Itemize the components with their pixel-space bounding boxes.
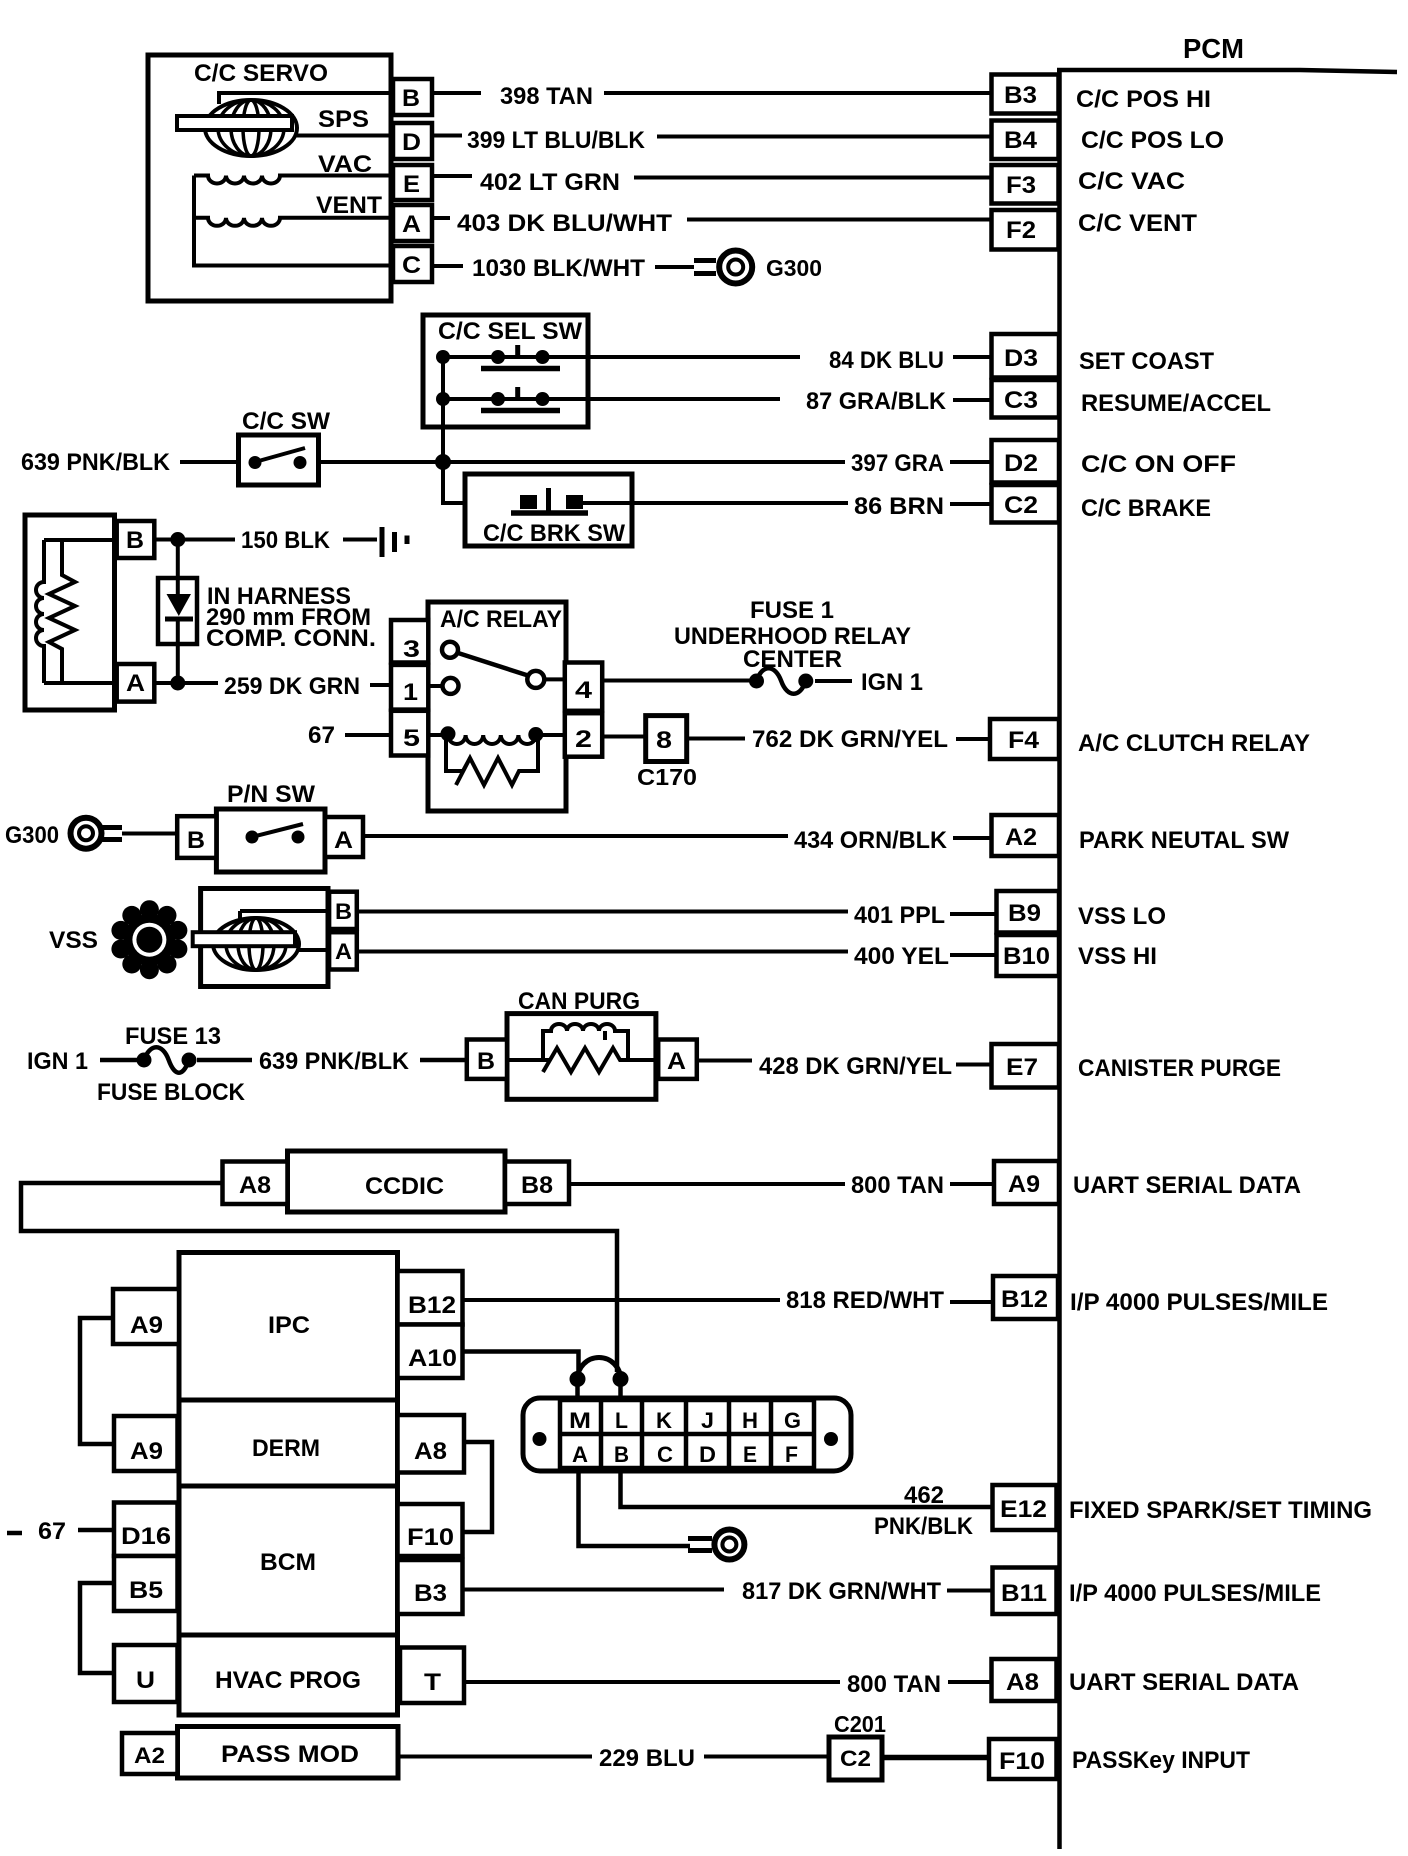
HVAC pin T xyxy=(400,1648,464,1704)
svg-text:762 DK GRN/YEL: 762 DK GRN/YEL xyxy=(752,726,948,753)
svg-text:A9: A9 xyxy=(130,1438,163,1465)
svg-text:B4: B4 xyxy=(1004,127,1038,154)
wire dash into E7 xyxy=(956,1063,991,1067)
svg-text:C/C BRAKE: C/C BRAKE xyxy=(1081,495,1211,522)
wire DLC pin B to E12 xyxy=(621,1468,993,1507)
BCM pin B3 xyxy=(398,1560,463,1614)
svg-text:UART SERIAL DATA: UART SERIAL DATA xyxy=(1073,1172,1301,1199)
svg-text:D: D xyxy=(699,1442,716,1467)
svg-text:FUSE 13: FUSE 13 xyxy=(125,1023,221,1050)
svg-text:I/P 4000 PULSES/MILE: I/P 4000 PULSES/MILE xyxy=(1069,1580,1321,1607)
CAN PURG box xyxy=(507,988,656,1099)
connector A8 xyxy=(992,1659,1057,1701)
PASS MOD box xyxy=(178,1727,399,1779)
svg-text:H: H xyxy=(742,1408,758,1433)
svg-text:A10: A10 xyxy=(408,1345,457,1372)
svg-text:C/C BRK SW: C/C BRK SW xyxy=(483,520,625,547)
connector B12 xyxy=(993,1276,1058,1319)
connector C201 pin C2 xyxy=(829,1737,882,1780)
svg-text:CENTER: CENTER xyxy=(743,646,842,673)
wire dash into C2 xyxy=(950,502,991,506)
svg-text:A: A xyxy=(334,827,353,854)
wire to C201 xyxy=(704,1755,829,1759)
wire dash to ground xyxy=(343,538,377,542)
connector B9 xyxy=(997,891,1060,933)
svg-text:C170: C170 xyxy=(637,764,697,790)
svg-text:E: E xyxy=(403,171,420,198)
clutch coil and resistor xyxy=(36,540,113,683)
junction dot xyxy=(435,454,451,470)
svg-text:U: U xyxy=(136,1667,155,1694)
connector C170 pin 8 xyxy=(646,716,687,762)
svg-text:P/N SW: P/N SW xyxy=(227,781,315,808)
wire 229 BLU xyxy=(398,1755,592,1759)
DLC connector body xyxy=(523,1398,851,1471)
svg-text:G: G xyxy=(784,1408,801,1433)
connector E12 xyxy=(993,1485,1057,1530)
HVAC PROG module box xyxy=(179,1635,398,1715)
VSS pin B xyxy=(329,892,357,929)
wire dash into B12 xyxy=(950,1300,993,1304)
svg-text:B5: B5 xyxy=(129,1577,163,1604)
BCM pin F10 xyxy=(398,1504,463,1556)
wire 818 RED/WHT IPC B12 to PCM B12 xyxy=(463,1298,781,1302)
P/N SW box xyxy=(216,781,325,872)
svg-text:B12: B12 xyxy=(408,1292,456,1319)
wire 1030 BLK/WHT to G300 xyxy=(432,266,694,267)
CCDIC pin B8 xyxy=(505,1162,569,1205)
wire relay pin 2 to C170 xyxy=(602,735,646,739)
svg-text:A9: A9 xyxy=(1008,1171,1040,1198)
wire 428 DK GRN/YEL to E7 xyxy=(697,1059,752,1063)
svg-text:A2: A2 xyxy=(134,1743,165,1768)
svg-text:L: L xyxy=(615,1408,628,1433)
svg-text:G300: G300 xyxy=(766,255,822,281)
wire 400 YEL to B10 xyxy=(357,950,848,954)
svg-text:397 GRA: 397 GRA xyxy=(851,450,944,477)
wire dash into B9 xyxy=(950,912,996,916)
DERM module box xyxy=(179,1400,398,1486)
wire C/C SW to junction and on to D2 xyxy=(319,460,846,464)
svg-text:C/C SW: C/C SW xyxy=(242,408,330,435)
C/C SW box xyxy=(239,408,331,485)
svg-text:639 PNK/BLK: 639 PNK/BLK xyxy=(259,1048,410,1075)
P/N SW pin A xyxy=(325,817,363,857)
svg-text:PASS MOD: PASS MOD xyxy=(221,1741,359,1768)
svg-text:B: B xyxy=(126,527,144,554)
connector C2 xyxy=(992,485,1060,523)
svg-text:A: A xyxy=(126,670,145,697)
svg-text:5: 5 xyxy=(403,725,420,752)
svg-text:B: B xyxy=(614,1442,629,1467)
svg-text:F10: F10 xyxy=(407,1524,454,1551)
svg-text:DERM: DERM xyxy=(252,1435,320,1462)
svg-text:B9: B9 xyxy=(1008,900,1041,927)
clutch pin B xyxy=(117,521,155,558)
wire DERM A8 to BCM F10 xyxy=(463,1442,493,1532)
wire resume/accel row to C3 xyxy=(443,397,780,401)
DERM pin A8 xyxy=(398,1415,465,1473)
svg-text:398 TAN: 398 TAN xyxy=(500,83,593,110)
svg-text:A: A xyxy=(402,211,421,238)
junction dot A xyxy=(170,676,185,691)
diode D (in harness) xyxy=(158,578,197,644)
svg-text:259 DK GRN: 259 DK GRN xyxy=(224,673,360,700)
svg-text:E: E xyxy=(743,1442,757,1467)
relay pin 1 xyxy=(391,665,428,710)
wire 259 DK GRN xyxy=(154,681,218,685)
CAN PURG pin A xyxy=(658,1040,697,1079)
wire 762 DK GRN/YEL to F4 xyxy=(687,737,745,741)
connector A9 xyxy=(994,1161,1059,1204)
svg-text:400 YEL: 400 YEL xyxy=(854,943,949,970)
svg-text:D: D xyxy=(402,129,421,156)
svg-text:B10: B10 xyxy=(1003,943,1050,970)
C/C SW contacts xyxy=(249,448,307,469)
svg-text:150 BLK: 150 BLK xyxy=(241,527,331,554)
svg-text:C/C VAC: C/C VAC xyxy=(1078,168,1185,195)
wire dash into A9 xyxy=(950,1182,994,1186)
A/C RELAY box xyxy=(428,602,566,811)
connector D2 xyxy=(992,440,1060,483)
wire 398 TAN to B3 xyxy=(432,91,991,95)
C/C SERVO box xyxy=(148,55,391,301)
set/coast switch contacts xyxy=(436,345,560,369)
svg-text:86 BRN: 86 BRN xyxy=(854,493,944,520)
svg-text:B8: B8 xyxy=(521,1172,553,1199)
wire relay pin 4 to fuse 1 xyxy=(602,679,757,683)
svg-text:639 PNK/BLK: 639 PNK/BLK xyxy=(21,449,171,476)
svg-text:C2: C2 xyxy=(840,1746,871,1771)
CCDIC module box xyxy=(288,1151,506,1212)
connector C3 xyxy=(992,380,1060,418)
servo pin A xyxy=(393,205,432,241)
P/N SW pin B xyxy=(177,816,216,858)
label FUSE 1 UNDERHOOD RELAY CENTER xyxy=(674,597,911,673)
brake switch contacts xyxy=(511,488,588,513)
svg-text:4: 4 xyxy=(575,677,593,704)
svg-text:A9: A9 xyxy=(130,1312,163,1339)
relay pin 2 xyxy=(565,713,602,757)
svg-text:HVAC PROG: HVAC PROG xyxy=(215,1667,361,1694)
connector E7 xyxy=(992,1044,1060,1088)
purge solenoid winding and resistor xyxy=(507,1024,658,1072)
svg-text:F4: F4 xyxy=(1008,727,1040,754)
wire dash into D2 xyxy=(950,460,991,464)
wire G300 to P/N SW pin B xyxy=(122,832,178,836)
svg-text:C/C POS LO: C/C POS LO xyxy=(1081,127,1224,154)
wire 800 TAN HVAC T to PCM A8 xyxy=(464,1680,840,1684)
svg-text:434 ORN/BLK: 434 ORN/BLK xyxy=(794,827,948,854)
note IN HARNESS xyxy=(206,583,376,652)
wire 402 LT GRN to F3 xyxy=(432,176,991,178)
fuse 13 symbol xyxy=(137,1047,197,1073)
svg-text:I/P 4000 PULSES/MILE: I/P 4000 PULSES/MILE xyxy=(1070,1289,1328,1316)
relay pin 4 xyxy=(565,663,602,711)
CAN PURG pin B xyxy=(467,1040,507,1079)
relay pin 3 xyxy=(391,620,428,663)
wire 639 PNK/BLK into C/C SW xyxy=(180,460,239,464)
A/C compressor clutch box xyxy=(25,515,115,710)
svg-text:SPS: SPS xyxy=(318,106,369,133)
svg-text:FUSE 1: FUSE 1 xyxy=(750,597,834,624)
ground symbol (150 BLK) xyxy=(382,527,407,557)
BCM pin B5 xyxy=(114,1556,178,1611)
svg-text:IGN 1: IGN 1 xyxy=(27,1048,88,1075)
ground ring terminal G300 (servo) xyxy=(694,251,752,284)
svg-text:J: J xyxy=(701,1408,714,1433)
connector B4 xyxy=(992,121,1059,160)
svg-text:A8: A8 xyxy=(239,1172,271,1199)
svg-text:B3: B3 xyxy=(414,1580,447,1607)
wire dash into D3 xyxy=(953,355,991,359)
wire into CAN PURG pin B xyxy=(420,1058,467,1063)
VAC solenoid coil xyxy=(194,176,393,184)
connector B11 xyxy=(993,1568,1057,1615)
connector F3 xyxy=(992,165,1059,204)
svg-text:UART SERIAL DATA: UART SERIAL DATA xyxy=(1069,1669,1299,1696)
wire dash into A2 xyxy=(953,836,991,840)
svg-text:VENT: VENT xyxy=(316,192,382,219)
IPC pin B12 xyxy=(398,1271,463,1325)
svg-text:A2: A2 xyxy=(1005,824,1037,851)
svg-text:67: 67 xyxy=(308,722,335,749)
ground ring terminal (DLC pin A) xyxy=(688,1530,744,1560)
wire 399 LT BLU/BLK to B4 xyxy=(432,136,991,137)
svg-text:C: C xyxy=(657,1442,673,1467)
svg-text:C2: C2 xyxy=(1004,492,1038,519)
VENT solenoid coil xyxy=(194,218,393,226)
svg-text:A: A xyxy=(667,1048,686,1075)
wire dash into relay pin 1 xyxy=(370,683,391,687)
svg-text:800 TAN: 800 TAN xyxy=(851,1172,944,1199)
wire IGN 1 to fuse 13 xyxy=(100,1058,145,1063)
wire 150 BLK xyxy=(154,538,235,542)
svg-text:B3: B3 xyxy=(1004,82,1037,109)
svg-text:F2: F2 xyxy=(1006,217,1036,244)
svg-text:B: B xyxy=(335,899,352,924)
svg-text:IGN 1: IGN 1 xyxy=(861,669,923,696)
svg-text:1: 1 xyxy=(403,679,418,706)
svg-text:A8: A8 xyxy=(414,1438,447,1465)
wire junction down to brake switch xyxy=(443,462,522,503)
relay contact circles and blade xyxy=(428,642,565,694)
connector B10 xyxy=(997,935,1060,976)
svg-text:A/C RELAY: A/C RELAY xyxy=(440,606,562,633)
svg-text:BCM: BCM xyxy=(260,1549,316,1576)
svg-text:C201: C201 xyxy=(834,1711,886,1737)
wire SPS to pin D xyxy=(295,134,393,138)
svg-text:403 DK BLU/WHT: 403 DK BLU/WHT xyxy=(457,210,672,237)
svg-text:87 GRA/BLK: 87 GRA/BLK xyxy=(806,388,947,415)
svg-text:817 DK GRN/WHT: 817 DK GRN/WHT xyxy=(742,1578,941,1605)
P/N SW contacts xyxy=(246,824,305,844)
VSS pickup coil xyxy=(193,911,329,970)
svg-text:E12: E12 xyxy=(1000,1496,1047,1523)
wire common to pin C xyxy=(194,176,393,266)
wire fuse 13 to 639 PNK/BLK xyxy=(197,1058,252,1063)
svg-text:K: K xyxy=(656,1408,672,1433)
svg-text:VSS: VSS xyxy=(49,927,98,954)
wire diode branch vertical xyxy=(176,540,180,684)
relay resistor (parallel) xyxy=(446,734,538,785)
svg-text:VSS LO: VSS LO xyxy=(1078,903,1166,930)
DLC pin letters bottom row A B C D E F xyxy=(572,1442,798,1467)
wire DLC pin A to ground ring xyxy=(579,1468,691,1546)
wire C2 to F10 xyxy=(882,1755,989,1761)
wire 67 into D16 xyxy=(78,1528,114,1533)
wire 67 into pin 5 xyxy=(345,733,391,737)
svg-text:VSS HI: VSS HI xyxy=(1078,943,1157,970)
svg-text:PARK NEUTAL SW: PARK NEUTAL SW xyxy=(1079,827,1289,854)
connector F2 xyxy=(992,210,1059,250)
C/C SEL SW box xyxy=(423,315,588,427)
wire IPC A9 to DERM A9 xyxy=(80,1318,114,1444)
svg-text:CANISTER PURGE: CANISTER PURGE xyxy=(1078,1055,1281,1082)
VSS reluctor gear xyxy=(111,900,187,979)
svg-text:B: B xyxy=(402,85,420,112)
connector F10 xyxy=(989,1739,1057,1779)
wire 434 ORN/BLK to A2 xyxy=(363,834,788,838)
wire dash into A8 xyxy=(948,1680,991,1684)
svg-text:399 LT BLU/BLK: 399 LT BLU/BLK xyxy=(467,127,646,154)
svg-text:RESUME/ACCEL: RESUME/ACCEL xyxy=(1081,390,1271,417)
PCM pin function labels xyxy=(1069,86,1372,1774)
wire CCDIC A8 loop to DLC pin L xyxy=(21,1183,617,1372)
svg-text:3: 3 xyxy=(403,636,420,663)
svg-text:C/C SERVO: C/C SERVO xyxy=(194,60,328,87)
svg-text:CCDIC: CCDIC xyxy=(365,1173,444,1200)
connector F4 xyxy=(990,719,1059,759)
SPS position sensor coil xyxy=(177,100,297,156)
servo pin B xyxy=(393,79,432,115)
svg-text:M: M xyxy=(569,1408,591,1433)
svg-text:PCM: PCM xyxy=(1183,33,1244,64)
BCM pin D16 xyxy=(114,1503,178,1557)
wire 67 dash xyxy=(7,1531,22,1536)
svg-text:C/C ON OFF: C/C ON OFF xyxy=(1081,451,1236,478)
svg-text:IPC: IPC xyxy=(268,1312,310,1339)
VSS sensor box xyxy=(201,889,328,987)
fuse 1 symbol xyxy=(749,668,813,694)
connector B3 xyxy=(992,75,1059,114)
svg-text:A: A xyxy=(572,1442,588,1467)
svg-text:2: 2 xyxy=(575,726,592,753)
wire dash into F4 xyxy=(956,737,990,741)
svg-text:B: B xyxy=(477,1048,495,1075)
svg-text:PASSKey INPUT: PASSKey INPUT xyxy=(1072,1747,1250,1774)
svg-text:G300: G300 xyxy=(5,822,59,849)
svg-text:FUSE BLOCK: FUSE BLOCK xyxy=(97,1079,246,1106)
svg-text:FIXED SPARK/SET TIMING: FIXED SPARK/SET TIMING xyxy=(1069,1497,1372,1524)
wire dash into B11 xyxy=(947,1589,992,1593)
svg-text:A8: A8 xyxy=(1006,1669,1039,1696)
PASS MOD pin A2 xyxy=(122,1733,178,1774)
svg-text:401 PPL: 401 PPL xyxy=(854,902,945,929)
svg-text:T: T xyxy=(424,1669,441,1696)
wire SPS to pin B xyxy=(219,93,393,104)
svg-text:C: C xyxy=(402,252,421,279)
svg-text:C/C SEL SW: C/C SEL SW xyxy=(438,318,582,345)
wire brake switch to C2 xyxy=(581,501,848,505)
svg-text:E7: E7 xyxy=(1006,1054,1038,1081)
VSS pin A xyxy=(329,932,357,969)
DLC pin letters top row M L K J H G xyxy=(569,1408,801,1433)
svg-text:462: 462 xyxy=(904,1482,944,1509)
relay coil xyxy=(428,726,565,744)
IPC pin A9 xyxy=(113,1289,179,1344)
connector D3 xyxy=(992,334,1060,378)
clutch pin A xyxy=(117,664,155,702)
relay pin 5 xyxy=(391,711,428,756)
servo pin E xyxy=(393,165,432,200)
wire 401 PPL to B9 xyxy=(357,910,848,914)
svg-text:1030 BLK/WHT: 1030 BLK/WHT xyxy=(472,255,645,282)
svg-text:D16: D16 xyxy=(121,1523,171,1550)
CCDIC pin A8 xyxy=(223,1162,288,1205)
wire set/coast row to D3 xyxy=(443,355,800,359)
svg-text:D3: D3 xyxy=(1004,345,1038,372)
wire fuse to IGN 1 xyxy=(815,679,852,683)
wire BCM B5 to HVAC U xyxy=(80,1583,114,1673)
wire 403 DK BLU/WHT to F2 xyxy=(432,218,991,220)
svg-text:F10: F10 xyxy=(999,1748,1045,1775)
wire 800 TAN CCDIC B8 to A9 xyxy=(569,1182,845,1186)
PCM bus line xyxy=(1057,68,1397,1849)
svg-text:229 BLU: 229 BLU xyxy=(599,1745,695,1772)
resume/accel switch contacts xyxy=(436,387,560,411)
DERM pin A9 xyxy=(114,1416,178,1471)
wire sel sw common down to junction xyxy=(441,357,445,462)
DLC jumper arc M-L xyxy=(570,1358,629,1401)
servo pin C xyxy=(393,246,432,282)
IPC module box xyxy=(179,1253,398,1401)
wire 817 DK GRN/WHT BCM B3 to PCM B11 xyxy=(463,1588,725,1592)
svg-text:8: 8 xyxy=(656,727,672,754)
wire dash into C3 xyxy=(953,398,991,402)
C/C BRK SW box xyxy=(465,474,632,547)
svg-text:A: A xyxy=(335,939,352,964)
wire IPC A10 to DLC pin M xyxy=(463,1352,579,1373)
svg-text:F3: F3 xyxy=(1006,172,1036,199)
svg-text:B12: B12 xyxy=(1001,1286,1048,1313)
svg-text:CAN PURG: CAN PURG xyxy=(518,988,640,1015)
connector A2 xyxy=(992,815,1060,856)
BCM module box xyxy=(179,1486,398,1635)
wire dash into B10 xyxy=(950,953,996,957)
svg-text:67: 67 xyxy=(38,1518,66,1545)
IPC pin A10 xyxy=(398,1325,463,1379)
svg-text:818 RED/WHT: 818 RED/WHT xyxy=(786,1287,944,1314)
junction dot B xyxy=(170,532,185,547)
svg-text:COMP. CONN.: COMP. CONN. xyxy=(206,625,376,652)
svg-text:A/C CLUTCH RELAY: A/C CLUTCH RELAY xyxy=(1078,730,1310,757)
svg-text:C3: C3 xyxy=(1004,387,1038,414)
svg-text:800 TAN: 800 TAN xyxy=(847,1671,941,1698)
svg-text:B: B xyxy=(187,827,205,854)
svg-text:PNK/BLK: PNK/BLK xyxy=(874,1513,974,1540)
svg-text:84 DK BLU: 84 DK BLU xyxy=(829,347,944,374)
svg-text:SET COAST: SET COAST xyxy=(1079,348,1214,375)
svg-text:D2: D2 xyxy=(1004,450,1038,477)
svg-text:428 DK GRN/YEL: 428 DK GRN/YEL xyxy=(759,1053,952,1080)
svg-text:B11: B11 xyxy=(1001,1580,1047,1607)
svg-text:F: F xyxy=(785,1442,798,1467)
svg-text:C/C POS HI: C/C POS HI xyxy=(1076,86,1211,113)
svg-text:402 LT GRN: 402 LT GRN xyxy=(480,169,620,196)
servo pin D xyxy=(393,123,432,159)
HVAC pin U xyxy=(114,1645,178,1702)
